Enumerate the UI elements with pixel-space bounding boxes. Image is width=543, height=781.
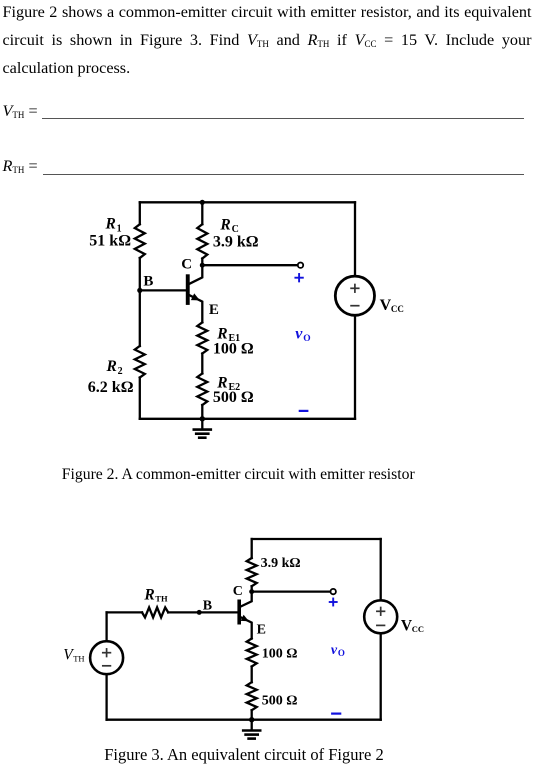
svg-text:100 Ω: 100 Ω — [213, 340, 254, 357]
label E — [209, 302, 219, 318]
label VCC — [380, 297, 404, 314]
label 100 ohm — [213, 340, 254, 357]
svg-text:V: V — [380, 297, 392, 314]
svg-text:CC: CC — [412, 624, 424, 634]
label 500 ohm — [213, 389, 254, 406]
wire: Figure 2 left branch upper segment — [139, 202, 141, 224]
label RTH — [143, 587, 168, 604]
svg-text:v: v — [295, 326, 303, 343]
resistor 500 ohm (Figure 3) — [247, 682, 257, 710]
VCC plus sign — [351, 285, 359, 293]
label B — [143, 274, 153, 290]
svg-text:E: E — [209, 302, 219, 318]
label + (output, blue) — [295, 274, 302, 281]
label RE2 — [216, 375, 240, 393]
resistor 100 ohm (Figure 3) — [247, 639, 257, 667]
wire: Q1 collector lead — [189, 265, 202, 284]
node B dot (Figure 3) — [197, 610, 202, 615]
transistor Q base bar (Figure 3) — [237, 600, 241, 625]
wire: base wire left segment (Figure 3) — [107, 611, 142, 613]
node: top rail / RC junction dot — [200, 200, 205, 205]
VTH plus sign — [103, 649, 111, 657]
label R1 — [105, 216, 122, 235]
source VCC (Figure 3) — [364, 600, 397, 633]
svg-text:E: E — [257, 622, 266, 637]
ground (Figure 2) — [194, 419, 211, 438]
svg-text:O: O — [338, 648, 345, 658]
svg-text:51 kΩ: 51 kΩ — [89, 232, 131, 249]
svg-text:TH: TH — [73, 654, 84, 664]
svg-text:B: B — [203, 598, 212, 613]
wire: left branch lower segment — [139, 378, 141, 419]
VCC minus sign — [351, 305, 359, 307]
label 100 ohm (Figure 3) — [262, 647, 298, 662]
wire: right branch bottom segment (Figure 2) — [354, 315, 356, 419]
wire: resistor to node C (Figure 3) — [251, 586, 253, 591]
VCC plus sign (Figure 3) — [377, 608, 385, 616]
answer blank line for RTH — [43, 174, 524, 175]
label 3.9 kohm — [213, 233, 259, 250]
svg-text:6.2 kΩ: 6.2 kΩ — [88, 379, 134, 396]
caption Figure 3 — [104, 745, 384, 765]
svg-text:v: v — [331, 643, 338, 658]
label VCC (Figure 3) — [401, 617, 424, 634]
svg-text:TH: TH — [155, 594, 168, 604]
svg-text:100 Ω: 100 Ω — [262, 647, 298, 662]
label 3.9 kohm (Figure 3) — [261, 556, 301, 571]
resistor RE2 — [197, 374, 207, 406]
label VTH — [63, 647, 84, 664]
svg-text:3.9 kΩ: 3.9 kΩ — [261, 556, 301, 571]
svg-text:C: C — [181, 257, 192, 273]
resistor RC — [197, 224, 207, 258]
svg-text:500 Ω: 500 Ω — [213, 389, 254, 406]
label C (Figure 3) — [233, 584, 243, 599]
wire: Q1 emitter lead — [189, 295, 202, 322]
wire: between RE1 and RE2 — [201, 354, 203, 374]
transistor Q1 base bar — [186, 274, 190, 305]
svg-text:O: O — [303, 334, 310, 344]
label RE1 — [216, 326, 240, 344]
node: ground junction dot (Figure 3) — [249, 717, 254, 722]
VCC minus sign (Figure 3) — [377, 624, 385, 626]
node C junction dot — [200, 263, 205, 268]
svg-text:R: R — [143, 587, 154, 604]
label vo (blue) — [295, 326, 310, 344]
wire: node C to output terminal — [202, 264, 297, 266]
wire: collector branch top segment (Figure 3) — [251, 539, 253, 558]
svg-text:R: R — [105, 216, 116, 233]
wire: base wire from node B to Q1 — [140, 289, 186, 291]
answer blank line for VTH — [42, 118, 523, 119]
ground (Figure 3) — [243, 720, 260, 739]
wire: Figure 3 bottom rail — [107, 719, 381, 721]
wire: Figure 3 top rail — [252, 538, 381, 540]
caption Figure 2 — [62, 466, 415, 484]
svg-text:B: B — [143, 274, 153, 290]
label 500 ohm (Figure 3) — [262, 694, 298, 709]
label vo (blue, Figure 3) — [331, 643, 345, 658]
resistor R1 — [135, 224, 145, 258]
resistor 3.9 kohm (Figure 3) — [247, 558, 257, 586]
wire: RE2 to bottom rail — [201, 405, 203, 419]
label - (output, blue) — [300, 410, 308, 412]
wire: right branch bottom segment (Figure 3) — [380, 633, 382, 719]
wire: Figure 2 bottom rail — [140, 418, 355, 420]
svg-text:500 Ω: 500 Ω — [262, 694, 298, 709]
answer label RTH — [3, 156, 38, 176]
svg-text:CC: CC — [391, 304, 404, 314]
node C junction dot (Figure 3) — [249, 589, 254, 594]
Q1 emitter arrowhead — [191, 293, 200, 300]
label E (Figure 3) — [257, 622, 266, 637]
wire: Figure 2 top rail — [140, 201, 355, 203]
label 51 kohm — [89, 232, 131, 249]
svg-text:2: 2 — [118, 366, 123, 377]
wire: VTH branch lower segment — [105, 674, 107, 720]
wire: left branch between R1 and node B — [139, 258, 141, 346]
source VTH — [90, 641, 123, 674]
svg-text:R: R — [106, 358, 117, 375]
wire: between 100 ohm and 500 ohm (Figure 3) — [251, 667, 253, 683]
resistor R2 — [135, 346, 145, 378]
label C — [181, 257, 192, 273]
Q emitter arrowhead (Figure 3) — [241, 615, 249, 621]
resistor RE1 — [197, 322, 207, 353]
wire: RTH to transistor base — [168, 611, 237, 613]
label - (output, blue, Figure 3) — [332, 712, 340, 714]
wire: right branch top segment (Figure 2) — [354, 202, 356, 276]
resistor RTH — [142, 607, 168, 617]
label R2 — [106, 358, 123, 377]
label + (output, blue, Figure 3) — [330, 599, 337, 606]
output terminal (open circle, Figure 3) — [331, 589, 336, 594]
label RC — [219, 216, 238, 235]
output terminal (open circle, Figure 2) — [298, 263, 303, 268]
answer label VTH — [3, 101, 38, 121]
svg-text:R: R — [219, 216, 230, 233]
wire: 500 ohm to bottom rail (Figure 3) — [251, 710, 253, 720]
wire: right branch top segment (Figure 3) — [380, 539, 382, 600]
svg-text:C: C — [233, 584, 243, 599]
wire: Q collector lead (Figure 3) — [241, 592, 252, 607]
problem statement paragraph — [3, 0, 532, 82]
label 6.2 kohm — [88, 379, 134, 396]
source VCC (Figure 2) — [335, 276, 374, 315]
label B (Figure 3) — [203, 598, 212, 613]
wire: node C to output terminal (Figure 3) — [252, 590, 331, 592]
svg-text:3.9 kΩ: 3.9 kΩ — [213, 233, 259, 250]
wire: VTH branch upper segment — [105, 612, 107, 641]
wire: Q emitter lead (Figure 3) — [241, 617, 252, 638]
node: ground junction dot — [200, 416, 205, 421]
wire: RC to node C — [201, 259, 203, 266]
VTH minus sign — [103, 665, 111, 667]
node B junction dot — [137, 288, 142, 293]
wire: middle branch top segment — [201, 202, 203, 224]
